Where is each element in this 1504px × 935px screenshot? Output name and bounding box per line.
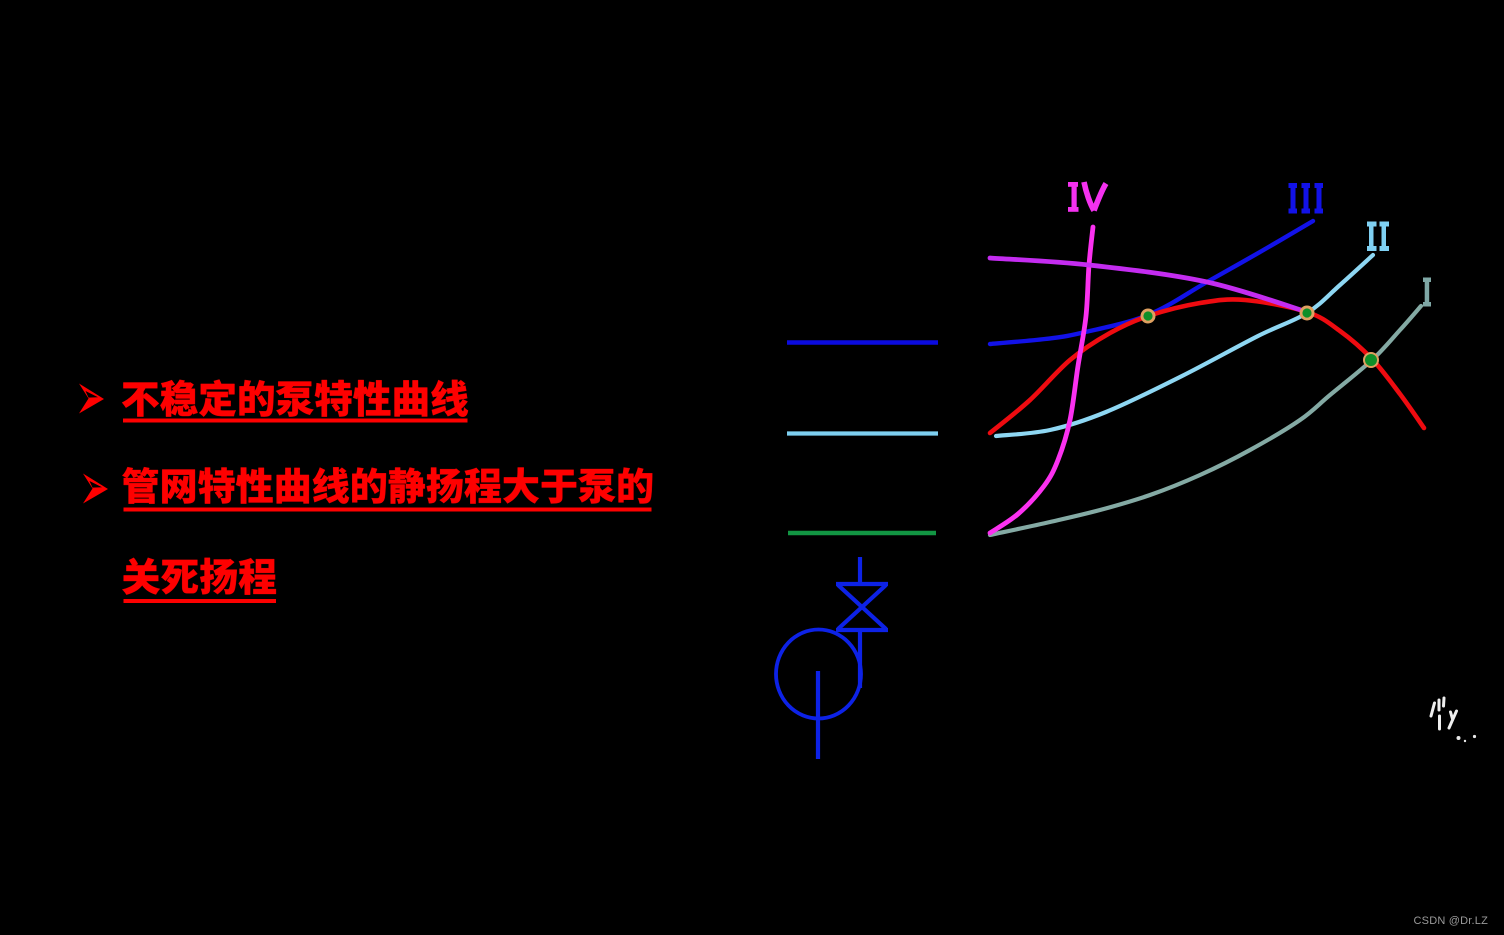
underline 2 [124,508,652,512]
operating point A [1141,309,1156,324]
watermark [1414,915,1489,927]
level line cyan [787,431,938,435]
bullet arrow 1 [79,384,104,414]
curve II light blue [996,255,1373,436]
label I [1423,278,1431,307]
bullet arrow 2 [83,474,108,504]
pipe stem above valve [858,557,862,584]
valve bowtie [836,584,888,630]
curve I teal [990,306,1421,535]
curve III blue [990,221,1313,344]
pump circle [776,630,861,719]
pipe valve to pump [858,630,862,688]
label IV [1068,182,1106,212]
label II [1367,222,1389,252]
text line 1: 不稳定的泵特性曲线 [122,379,468,416]
red pump curve [990,299,1424,433]
svg-text:CSDN @Dr.LZ: CSDN @Dr.LZ [1414,915,1489,927]
curve IV magenta steep [990,227,1093,533]
pump suction line [816,671,820,759]
operating point C [1363,352,1379,368]
level line blue [787,340,938,344]
white scribble annotation [1431,698,1457,729]
text line 2: 管网特性曲线的静扬程大于泵的 [122,467,652,504]
underline 3 [124,599,277,603]
text line 3: 关死扬程 [122,558,276,595]
label III [1289,183,1324,214]
underline 1 [123,419,468,423]
operating point B [1300,306,1315,321]
violet descending line [990,258,1310,313]
level line green [788,531,936,536]
